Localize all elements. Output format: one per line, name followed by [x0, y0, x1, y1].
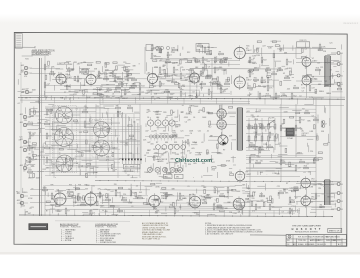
svg-text:C21: C21	[279, 190, 282, 192]
svg-text:C21: C21	[172, 79, 175, 81]
svg-text:R3: R3	[115, 89, 117, 91]
svg-text:.005: .005	[105, 95, 109, 97]
svg-text:.005: .005	[85, 189, 89, 191]
svg-text:C4: C4	[210, 77, 212, 79]
svg-text:R22: R22	[263, 60, 266, 62]
svg-text:C21: C21	[154, 67, 157, 69]
svg-text:C9: C9	[271, 135, 273, 137]
svg-text:12AX7: 12AX7	[246, 49, 252, 52]
svg-text:R7: R7	[195, 142, 197, 144]
svg-text:C21: C21	[65, 74, 68, 76]
svg-text:.047: .047	[125, 143, 129, 145]
svg-text:R31: R31	[258, 85, 261, 87]
svg-text:.047: .047	[148, 150, 152, 152]
svg-text:C4: C4	[190, 133, 192, 135]
svg-text:A-1: A-1	[338, 243, 341, 246]
svg-text:.02: .02	[300, 129, 303, 131]
svg-text:C21: C21	[202, 200, 205, 202]
svg-text:R7: R7	[286, 183, 288, 185]
svg-text:.02: .02	[163, 193, 166, 195]
svg-text:C9: C9	[51, 199, 53, 201]
svg-text:470: 470	[25, 142, 28, 144]
svg-text:R31: R31	[245, 199, 248, 201]
svg-text:.01: .01	[265, 71, 268, 73]
svg-text:R7: R7	[250, 94, 252, 96]
svg-text:C4: C4	[259, 110, 261, 112]
svg-text:.047: .047	[311, 88, 315, 90]
svg-text:1MEG: 1MEG	[144, 172, 150, 174]
svg-text:.01: .01	[207, 131, 210, 133]
svg-text:1MEG: 1MEG	[297, 152, 303, 154]
svg-text:1MEG: 1MEG	[104, 91, 110, 93]
svg-text:220: 220	[114, 184, 117, 186]
svg-text:R16: R16	[316, 67, 319, 69]
svg-text:C4: C4	[199, 154, 201, 156]
svg-text:1MEG: 1MEG	[175, 170, 181, 172]
svg-text:.005: .005	[172, 63, 176, 65]
svg-text:.005: .005	[278, 68, 282, 70]
svg-text:.02: .02	[266, 198, 269, 200]
svg-text:POSITION: POSITION	[95, 227, 104, 229]
svg-text:1MEG: 1MEG	[122, 98, 128, 100]
svg-text:.01: .01	[177, 165, 180, 167]
svg-text:R7: R7	[218, 192, 220, 194]
svg-text:C21: C21	[156, 76, 159, 78]
svg-text:R31: R31	[125, 80, 128, 82]
svg-text:220: 220	[123, 194, 126, 196]
svg-text:470: 470	[99, 88, 102, 90]
svg-text:ChHscott.com: ChHscott.com	[175, 158, 212, 164]
svg-text:12AX7: 12AX7	[245, 173, 251, 176]
svg-text:.005: .005	[254, 81, 258, 83]
svg-text:299 SCH 2 OF 2: 299 SCH 2 OF 2	[343, 23, 359, 25]
svg-text:.047: .047	[122, 171, 126, 173]
svg-text:R31: R31	[90, 192, 93, 194]
svg-text:117VAC: 117VAC	[287, 137, 294, 140]
svg-text:220: 220	[77, 64, 80, 66]
svg-text:R9: R9	[116, 105, 118, 107]
svg-text:R12: R12	[46, 67, 49, 69]
svg-text:.047: .047	[248, 62, 252, 64]
svg-text:.047: .047	[262, 46, 266, 48]
svg-text:R12: R12	[167, 55, 170, 57]
svg-text:C4: C4	[304, 49, 306, 51]
svg-text:C21: C21	[314, 117, 317, 119]
svg-text:C9: C9	[281, 211, 283, 213]
svg-text:R31: R31	[248, 85, 251, 87]
svg-text:.02: .02	[86, 82, 89, 84]
svg-text:6 — EXTRA: 6 — EXTRA	[61, 239, 72, 242]
svg-text:R44: R44	[282, 128, 285, 130]
svg-text:220: 220	[260, 160, 263, 162]
svg-text:R12: R12	[208, 126, 211, 128]
svg-text:R7: R7	[148, 73, 150, 75]
svg-text:16: 16	[341, 64, 343, 66]
svg-text:JW 4-61-13: JW 4-61-13	[317, 244, 326, 246]
svg-text:.047: .047	[165, 151, 169, 153]
svg-text:R3: R3	[68, 189, 70, 191]
svg-text:220: 220	[318, 188, 321, 190]
svg-text:R12: R12	[291, 211, 294, 213]
svg-text:.047: .047	[33, 145, 37, 147]
svg-text:16: 16	[341, 84, 343, 86]
svg-text:R31: R31	[220, 127, 223, 129]
svg-text:R12: R12	[218, 84, 221, 86]
svg-text:220: 220	[123, 62, 126, 64]
svg-text:C9: C9	[102, 200, 104, 202]
svg-text:.047: .047	[297, 168, 301, 170]
svg-text:R7: R7	[30, 208, 32, 210]
svg-text:R31: R31	[163, 112, 166, 114]
svg-text:LAMPS: LAMPS	[157, 160, 164, 163]
svg-text:C9: C9	[295, 197, 297, 199]
svg-text:R31: R31	[246, 46, 249, 48]
svg-text:C4: C4	[147, 117, 149, 119]
svg-text:2.2M: 2.2M	[74, 163, 78, 165]
svg-text:470: 470	[154, 131, 157, 133]
svg-text:.02: .02	[218, 111, 221, 113]
svg-text:.01: .01	[213, 203, 216, 205]
svg-text:C21: C21	[19, 137, 22, 139]
svg-text:R12: R12	[187, 52, 190, 54]
svg-text:16: 16	[341, 201, 343, 203]
svg-text:C4: C4	[31, 112, 33, 114]
svg-text:1MEG: 1MEG	[22, 192, 28, 194]
svg-text:C21: C21	[180, 131, 183, 133]
svg-text:C21: C21	[30, 166, 33, 168]
svg-text:.005: .005	[260, 200, 264, 202]
svg-text:C9: C9	[179, 207, 181, 209]
svg-text:.047: .047	[110, 191, 114, 193]
svg-text:2.2M: 2.2M	[256, 55, 260, 57]
svg-text:.005: .005	[163, 131, 167, 133]
svg-text:C9: C9	[47, 84, 49, 86]
svg-text:C21: C21	[290, 187, 293, 189]
svg-text:R31: R31	[94, 202, 97, 204]
svg-text:.005: .005	[303, 202, 307, 204]
svg-text:12AX7: 12AX7	[67, 76, 73, 79]
svg-text:R16: R16	[266, 93, 269, 95]
svg-text:C9: C9	[238, 211, 240, 213]
svg-text:470: 470	[32, 134, 35, 136]
svg-text:1MEG: 1MEG	[319, 91, 325, 93]
svg-text:C21: C21	[99, 125, 102, 127]
svg-text:C4: C4	[216, 70, 218, 72]
svg-text:.047: .047	[25, 88, 29, 90]
svg-text:.02: .02	[189, 153, 192, 155]
svg-text:R31: R31	[25, 59, 28, 61]
svg-text:R31: R31	[85, 90, 88, 92]
svg-text:R12: R12	[16, 192, 19, 194]
svg-text:R12: R12	[212, 169, 215, 171]
svg-text:R31: R31	[69, 185, 72, 187]
svg-text:R12: R12	[167, 81, 170, 83]
svg-text:.047: .047	[113, 81, 117, 83]
svg-text:R31: R31	[27, 162, 30, 164]
svg-text:2.2M: 2.2M	[191, 199, 195, 201]
svg-text:R3: R3	[256, 160, 258, 162]
svg-text:2.2M: 2.2M	[309, 97, 313, 99]
svg-text:.047: .047	[68, 166, 72, 168]
svg-text:.047: .047	[170, 137, 174, 139]
svg-text:C21: C21	[92, 213, 95, 215]
svg-text:C4: C4	[156, 111, 158, 113]
svg-text:C21: C21	[258, 208, 261, 210]
svg-text:R7: R7	[79, 79, 81, 81]
svg-text:R52: R52	[291, 200, 294, 202]
svg-text:.047: .047	[114, 77, 118, 79]
svg-text:2.2M: 2.2M	[272, 173, 276, 175]
svg-text:C4: C4	[299, 96, 301, 98]
svg-text:.005: .005	[188, 204, 192, 206]
svg-text:R44: R44	[141, 86, 144, 88]
svg-text:PILOT LAMP TYPE 44: PILOT LAMP TYPE 44	[142, 238, 160, 241]
svg-text:C21: C21	[320, 67, 323, 69]
svg-text:C21: C21	[278, 143, 281, 145]
svg-text:.02: .02	[166, 163, 169, 165]
svg-text:C9: C9	[105, 189, 107, 191]
svg-text:470: 470	[98, 188, 101, 190]
svg-text:.02: .02	[68, 67, 71, 69]
svg-text:2.2M: 2.2M	[83, 109, 87, 111]
svg-text:.02: .02	[329, 70, 332, 72]
svg-text:.01: .01	[53, 196, 56, 198]
svg-text:R12: R12	[175, 117, 178, 119]
svg-text:220: 220	[146, 153, 149, 155]
svg-text:R7: R7	[301, 84, 303, 86]
svg-text:C9: C9	[44, 143, 46, 145]
svg-text:R7: R7	[31, 147, 33, 149]
svg-text:C9: C9	[208, 67, 210, 69]
svg-text:R12: R12	[281, 160, 284, 162]
svg-text:PH 1: PH 1	[200, 47, 204, 49]
svg-text:.005: .005	[103, 72, 107, 74]
svg-text:.005: .005	[79, 132, 83, 134]
svg-text:.01: .01	[201, 142, 204, 144]
svg-text:C4: C4	[176, 211, 178, 213]
svg-text:R7: R7	[46, 210, 48, 212]
svg-text:.01: .01	[165, 117, 168, 119]
svg-text:R12: R12	[293, 135, 296, 137]
svg-text:C9: C9	[192, 194, 194, 196]
svg-text:C4: C4	[128, 189, 130, 191]
svg-text:.01: .01	[112, 93, 115, 95]
svg-text:.01: .01	[64, 199, 67, 201]
svg-text:R7: R7	[67, 211, 69, 213]
svg-text:.047: .047	[145, 131, 149, 133]
svg-text:R12: R12	[155, 212, 158, 214]
svg-text:C9: C9	[131, 206, 133, 208]
svg-text:.02: .02	[283, 73, 286, 75]
svg-text:R31: R31	[254, 77, 257, 79]
svg-text:220: 220	[31, 115, 34, 117]
svg-text:R7: R7	[117, 193, 119, 195]
svg-text:R3: R3	[173, 47, 175, 49]
svg-text:.01: .01	[148, 111, 151, 113]
svg-text:C9: C9	[114, 74, 116, 76]
svg-text:R9: R9	[294, 85, 296, 87]
svg-text:FUNCTION: FUNCTION	[107, 227, 117, 229]
svg-text:2.2M: 2.2M	[252, 56, 256, 58]
svg-text:R58 270: R58 270	[300, 40, 307, 42]
svg-text:.02: .02	[180, 112, 183, 114]
svg-text:C12: C12	[268, 144, 271, 146]
svg-text:R7: R7	[264, 87, 266, 89]
svg-text:.01: .01	[181, 105, 184, 107]
svg-text:2.2M: 2.2M	[41, 157, 45, 159]
svg-text:.047: .047	[337, 85, 341, 87]
svg-text:R7: R7	[223, 149, 225, 151]
svg-text:C4: C4	[19, 74, 21, 76]
svg-text:C9: C9	[199, 196, 201, 198]
svg-text:16: 16	[341, 53, 343, 55]
svg-text:.02: .02	[253, 58, 256, 60]
svg-text:C4: C4	[302, 91, 304, 93]
svg-text:16: 16	[341, 184, 343, 186]
svg-text:C21: C21	[324, 81, 327, 83]
svg-text:C21: C21	[329, 43, 332, 45]
svg-text:12AX7: 12AX7	[311, 180, 317, 183]
svg-text:R7: R7	[59, 111, 61, 113]
svg-text:12-5: 12-5	[338, 240, 341, 242]
svg-text:.02: .02	[28, 117, 31, 119]
svg-text:R31: R31	[250, 142, 253, 144]
svg-text:470: 470	[267, 72, 270, 74]
svg-text:.02: .02	[144, 155, 147, 157]
svg-text:R31: R31	[189, 76, 192, 78]
svg-text:.01: .01	[303, 172, 306, 174]
svg-text:R3: R3	[320, 204, 322, 206]
svg-text:C4: C4	[182, 94, 184, 96]
svg-text:R7: R7	[99, 90, 101, 92]
svg-text:R31: R31	[195, 96, 198, 98]
svg-text:.047: .047	[106, 159, 110, 161]
svg-text:2.2M: 2.2M	[313, 184, 317, 186]
svg-text:R7: R7	[26, 160, 28, 162]
svg-text:.02: .02	[35, 159, 38, 161]
svg-text:C21: C21	[198, 131, 201, 133]
svg-text:470: 470	[157, 174, 160, 176]
svg-text:C21: C21	[254, 132, 257, 134]
svg-text:.047: .047	[162, 66, 166, 68]
svg-text:SHEET 1 OF 2: SHEET 1 OF 2	[329, 231, 341, 233]
svg-text:.01: .01	[81, 69, 84, 71]
svg-text:R12: R12	[301, 120, 304, 122]
svg-text:R7: R7	[182, 85, 184, 87]
svg-text:R12: R12	[160, 201, 163, 203]
svg-text:1MEG: 1MEG	[301, 135, 307, 137]
svg-text:.02: .02	[177, 65, 180, 67]
svg-text:R7: R7	[287, 76, 289, 78]
svg-text:R31: R31	[174, 142, 177, 144]
svg-text:R52: R52	[129, 78, 132, 80]
svg-text:2.2M: 2.2M	[249, 90, 253, 92]
svg-text:12AX7: 12AX7	[246, 79, 252, 82]
svg-text:.005: .005	[124, 76, 128, 78]
svg-text:R31: R31	[158, 114, 161, 116]
svg-text:.01: .01	[114, 190, 117, 192]
svg-text:220: 220	[252, 198, 255, 200]
svg-text:.047: .047	[161, 70, 165, 72]
svg-text:.005: .005	[287, 88, 291, 90]
svg-text:1MEG: 1MEG	[252, 63, 258, 65]
svg-text:C9: C9	[31, 188, 33, 190]
svg-text:C9: C9	[26, 157, 28, 159]
svg-text:TYPE 299: TYPE 299	[298, 240, 306, 242]
svg-text:1MEG: 1MEG	[254, 67, 260, 69]
svg-text:C9: C9	[30, 122, 32, 124]
svg-text:R16: R16	[128, 105, 131, 107]
svg-text:FUNCTION: FUNCTION	[71, 227, 81, 229]
svg-text:C4: C4	[151, 131, 153, 133]
svg-text:.005: .005	[191, 148, 195, 150]
svg-text:R22: R22	[257, 135, 260, 137]
svg-text:R44: R44	[288, 62, 291, 64]
svg-text:C9: C9	[251, 74, 253, 76]
svg-text:C4: C4	[149, 203, 151, 205]
svg-text:R7: R7	[81, 74, 83, 76]
svg-text:.02: .02	[17, 103, 20, 105]
svg-text:.005: .005	[246, 111, 250, 113]
svg-text:220: 220	[46, 120, 49, 122]
svg-text:2.2M: 2.2M	[166, 92, 170, 94]
svg-text:.02: .02	[124, 94, 127, 96]
svg-text:C9: C9	[181, 67, 183, 69]
svg-text:.005: .005	[92, 89, 96, 91]
svg-text:MAYNARD MASS: MAYNARD MASS	[326, 236, 340, 239]
svg-text:SCALE: SCALE	[298, 243, 304, 246]
svg-text:C21: C21	[277, 186, 280, 188]
svg-text:FM MULTIPLEX STEREO: FM MULTIPLEX STEREO	[295, 232, 319, 234]
svg-text:S: S	[289, 236, 290, 238]
svg-text:.01: .01	[236, 207, 239, 209]
svg-text:R7: R7	[315, 91, 317, 93]
svg-text:2.2M: 2.2M	[175, 154, 179, 156]
svg-text:2.2M: 2.2M	[233, 213, 237, 215]
svg-text:C21: C21	[317, 63, 320, 65]
svg-text:.005: .005	[135, 197, 139, 199]
svg-text:470: 470	[187, 150, 190, 152]
svg-text:SER. 2: SER. 2	[318, 240, 323, 242]
svg-text:220: 220	[292, 128, 295, 130]
svg-text:220: 220	[83, 62, 86, 64]
svg-text:2.2M: 2.2M	[186, 113, 190, 115]
svg-text:2.2M: 2.2M	[93, 172, 97, 174]
svg-text:.005: .005	[150, 144, 154, 146]
svg-text:2.2M: 2.2M	[51, 164, 55, 166]
svg-text:2.2M: 2.2M	[222, 70, 226, 72]
svg-text:POSITION: POSITION	[60, 227, 69, 229]
svg-text:R12: R12	[198, 62, 201, 64]
svg-text:.01: .01	[18, 140, 21, 142]
svg-text:5. AC VOLTAGES ± 10% LINE 117: 5. AC VOLTAGES ± 10% LINE 117V	[205, 232, 234, 235]
svg-text:2.2M: 2.2M	[116, 85, 120, 87]
svg-text:.005: .005	[199, 84, 203, 86]
svg-text:ON-OFF: ON-OFF	[268, 118, 274, 120]
svg-text:H H S C O T T: H H S C O T T	[292, 228, 322, 231]
svg-text:.005: .005	[139, 192, 143, 194]
svg-text:C12: C12	[272, 71, 275, 73]
svg-text:R31: R31	[188, 164, 191, 166]
svg-text:.02: .02	[198, 112, 201, 114]
svg-text:C4: C4	[185, 122, 187, 124]
svg-text:.047: .047	[129, 138, 133, 140]
svg-text:.01: .01	[317, 196, 320, 198]
svg-text:C9: C9	[315, 79, 317, 81]
svg-text:C21: C21	[285, 131, 288, 133]
svg-text:.005: .005	[260, 172, 264, 174]
svg-text:.01: .01	[61, 63, 64, 65]
